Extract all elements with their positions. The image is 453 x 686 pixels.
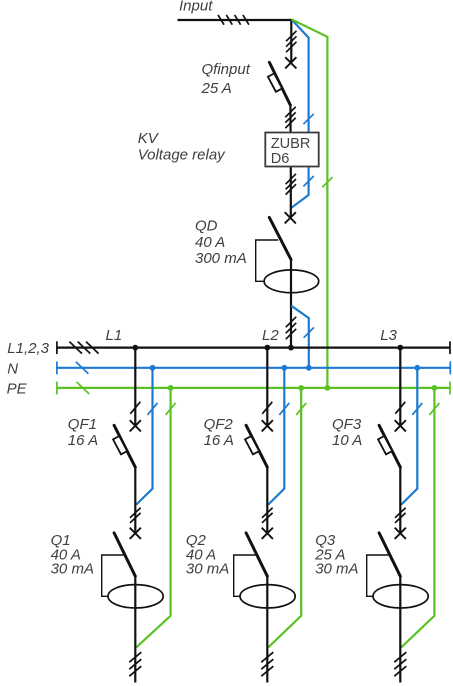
- svg-text:300 mA: 300 mA: [195, 250, 247, 267]
- RCD Q2 contact cross: [262, 528, 273, 539]
- value label 30 mA (Q3): [315, 560, 358, 577]
- value label 40 A (Q2): [186, 547, 216, 564]
- junction N tap 1 (blue): [150, 365, 156, 371]
- conductor mark PE drop 3 (green): [429, 403, 439, 415]
- junction main N on N bus (blue): [306, 365, 312, 371]
- svg-text:L2: L2: [262, 327, 279, 344]
- label QF1: [68, 416, 97, 433]
- svg-text:KV: KV: [138, 130, 160, 147]
- RCD Q3 lever: [379, 533, 400, 576]
- svg-text:D6: D6: [271, 151, 290, 167]
- wire phase drop to QF2: [266, 348, 268, 426]
- label Q2: [186, 532, 207, 549]
- breaker QF1 contact cross: [130, 420, 141, 431]
- conductor mark on PE below KV (green): [322, 177, 332, 187]
- conductor mark phase drop 3: [395, 402, 405, 414]
- net label Input: [179, 0, 213, 15]
- RCD Q2 test loop bracket: [234, 555, 257, 596]
- conductor mark N drop 3 (blue): [412, 403, 422, 415]
- conductor mark on N below QD (blue): [304, 327, 314, 337]
- wire PE drop 2 (green): [268, 388, 301, 648]
- wire N tap below QD (blue): [291, 306, 309, 368]
- RCD Q3 contact cross: [395, 528, 406, 539]
- svg-text:16 A: 16 A: [204, 432, 234, 449]
- value label 16 A (QF1): [68, 432, 98, 449]
- junction main PE on PE bus (green): [325, 385, 331, 391]
- conductor count marks main feed above Qfinput (3): [286, 31, 296, 52]
- RCD QD lever: [269, 217, 291, 259]
- conductor count marks on input cable (4): [218, 15, 249, 25]
- conductor count marks below KV (3): [286, 174, 296, 195]
- svg-text:L3: L3: [380, 327, 397, 344]
- bus PE busbar (green): [57, 382, 450, 395]
- svg-text:L1: L1: [106, 327, 123, 344]
- wire QF2 to Q2: [266, 467, 268, 534]
- conductor count marks load cable 3 (3): [394, 652, 406, 676]
- breaker QF2 lever: [246, 425, 267, 467]
- svg-text:QF1: QF1: [68, 416, 97, 433]
- label KV: [138, 130, 160, 147]
- RCD Q1 test loop bracket: [102, 555, 125, 596]
- svg-text:QF3: QF3: [332, 416, 362, 433]
- breaker QF2 thermal element box: [245, 436, 259, 454]
- value label 300 mA (QD): [195, 250, 247, 267]
- bus L1,2,3 phase busbar: [57, 341, 450, 354]
- conductor mark phase drop 2: [262, 402, 272, 414]
- svg-text:30 mA: 30 mA: [51, 560, 94, 577]
- conductor mark PE drop 1 (green): [166, 403, 176, 415]
- conductor count marks between QF3 and Q3 (2): [395, 508, 406, 523]
- RCD Q1 toroid ellipse: [108, 585, 163, 608]
- junction main feed on phase bus: [288, 345, 294, 351]
- junction phase tap L3: [397, 345, 403, 351]
- value label 30 mA (Q2): [186, 560, 229, 577]
- breaker Qfinput contact cross: [285, 57, 296, 68]
- breaker QF2 contact cross: [262, 420, 273, 431]
- junction phase tap L1: [132, 345, 138, 351]
- svg-text:ZUBR: ZUBR: [271, 136, 311, 152]
- breaker QF3 lever: [379, 425, 400, 467]
- breaker Qfinput lever: [269, 62, 290, 105]
- breaker QF1 lever: [114, 425, 135, 467]
- conductor count marks phase bus (3): [69, 342, 98, 354]
- wire Q3 to load 3: [399, 575, 401, 682]
- value label 40 A (Q1): [51, 547, 81, 564]
- svg-text:L1,2,3: L1,2,3: [7, 340, 49, 357]
- label Q1: [51, 532, 71, 549]
- svg-text:10 A: 10 A: [332, 432, 362, 449]
- svg-text:N: N: [7, 360, 18, 377]
- breaker Qfinput thermal element box: [268, 73, 282, 91]
- svg-text:25 A: 25 A: [201, 80, 232, 97]
- wire phase drop to QF3: [399, 348, 401, 426]
- conductor count marks between Qfinput and KV (3): [285, 107, 295, 128]
- svg-text:16 A: 16 A: [68, 432, 98, 449]
- junction N tap 3 (blue): [414, 365, 420, 371]
- label QF3: [332, 416, 362, 433]
- bus N busbar (blue): [57, 362, 450, 375]
- phase tap label L2: [262, 327, 279, 344]
- conductor count marks between QF2 and Q2 (2): [262, 508, 273, 523]
- value label 10 A (QF3): [332, 432, 362, 449]
- wire N drop 1 (blue): [136, 368, 152, 505]
- label Qfinput: [202, 61, 251, 78]
- wire PE branch from input corner (green): [292, 19, 328, 388]
- conductor mark PE drop 2 (green): [296, 403, 306, 415]
- RCD QD test loop bracket: [256, 240, 279, 281]
- conductor count marks load cable 2 (3): [261, 652, 273, 676]
- svg-text:Voltage relay: Voltage relay: [138, 147, 226, 164]
- svg-text:30 mA: 30 mA: [315, 560, 358, 577]
- RCD Q1 contact cross: [130, 528, 141, 539]
- wire N drop 3 (blue): [401, 368, 417, 505]
- breaker QF3 thermal element box: [378, 436, 392, 454]
- wire Qfinput to ZUBR box: [289, 105, 291, 134]
- phase tap label L1: [106, 327, 123, 344]
- breaker QF3 contact cross: [395, 420, 406, 431]
- value label 25 A (Q3): [314, 547, 345, 564]
- wire through relay (hidden by box): [290, 160, 292, 218]
- junction phase tap L2: [264, 345, 270, 351]
- svg-text:Qfinput: Qfinput: [202, 61, 251, 78]
- svg-text:QD: QD: [195, 217, 218, 234]
- svg-text:30 mA: 30 mA: [186, 560, 229, 577]
- label QF2: [204, 416, 234, 433]
- wire main feed drop from input corner: [290, 19, 292, 63]
- voltage relay U1 ZUBR D6 box: [265, 133, 318, 168]
- wire PE drop 1 (green): [136, 388, 170, 648]
- wire N drop 2 (blue): [268, 368, 284, 505]
- label QD: [195, 217, 218, 234]
- RCD Q3 toroid ellipse: [373, 585, 428, 608]
- wire QF1 to Q1: [134, 467, 136, 534]
- value label 25 A: [201, 80, 232, 97]
- conductor count marks between QF1 and Q1 (2): [130, 508, 141, 523]
- conductor mark N drop 2 (blue): [279, 403, 289, 415]
- wire Q2 to load 2: [266, 575, 268, 682]
- RCD Q3 test loop bracket: [367, 555, 390, 596]
- phase tap label L3: [380, 327, 397, 344]
- junction PE tap 3 (green): [432, 385, 438, 391]
- wire Q1 to load 1: [134, 575, 136, 682]
- junction PE tap 2 (green): [298, 385, 304, 391]
- RCD Q1 lever: [114, 533, 135, 576]
- RCD QD toroid ellipse: [264, 270, 319, 293]
- bus label PE: [7, 380, 28, 397]
- RCD Q2 toroid ellipse: [240, 585, 295, 608]
- wire N branch from input corner (blue): [292, 19, 309, 207]
- wire QF3 to Q3: [399, 467, 401, 534]
- value label 16 A (QF2): [204, 432, 234, 449]
- conductor mark N bus (blue): [76, 362, 89, 374]
- conductor mark on N between Qfinput and KV (blue): [303, 114, 313, 124]
- svg-text:QF2: QF2: [204, 416, 234, 433]
- value label 30 mA (Q1): [51, 560, 94, 577]
- label Voltage relay: [138, 147, 226, 164]
- conductor mark N drop 1 (blue): [148, 403, 158, 415]
- junction PE tap 1 (green): [168, 385, 174, 391]
- junction N tap 2 (blue): [281, 365, 287, 371]
- RCD Q2 lever: [246, 533, 267, 576]
- wire PE drop 3 (green): [401, 388, 434, 648]
- conductor mark PE bus (green): [77, 382, 90, 394]
- conductor mark phase drop 1: [130, 402, 140, 414]
- svg-text:Input: Input: [179, 0, 213, 15]
- svg-text:PE: PE: [7, 380, 28, 397]
- conductor count marks below QD (3): [286, 317, 296, 339]
- RCD QD contact cross: [285, 212, 296, 223]
- wire QD to phase bus: [290, 259, 292, 348]
- label Q3: [315, 532, 336, 549]
- conductor mark on N below KV (blue): [303, 176, 313, 186]
- svg-text:40 A: 40 A: [195, 234, 225, 251]
- bus label L1,2,3: [7, 340, 49, 357]
- bus label N: [7, 360, 18, 377]
- breaker QF1 thermal element box: [113, 436, 127, 454]
- wire input horizontal feed: [178, 19, 292, 21]
- conductor count marks load cable 1 (3): [129, 652, 141, 676]
- value label 40 A (QD): [195, 234, 225, 251]
- wire phase drop to QF1: [134, 348, 136, 426]
